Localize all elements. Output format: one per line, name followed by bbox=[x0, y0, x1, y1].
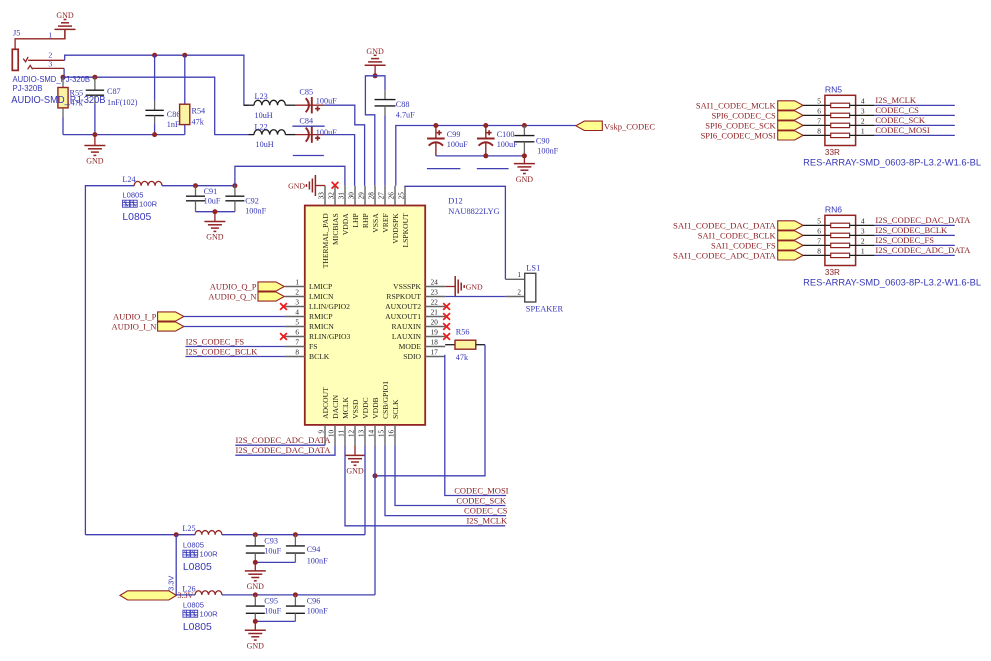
svg-text:GND: GND bbox=[346, 467, 364, 476]
svg-text:15: 15 bbox=[377, 429, 385, 437]
net label I2S_CODEC_FS / wire bbox=[875, 235, 955, 245]
no-connect X pin 32 bbox=[332, 182, 339, 189]
resistor element pins 8/1 bbox=[803, 246, 875, 257]
net label CODEC_CS / wire bbox=[875, 105, 955, 115]
svg-text:3.3V: 3.3V bbox=[167, 576, 176, 591]
junction C95 top bbox=[253, 592, 258, 597]
svg-text:RLIN/GPIO3: RLIN/GPIO3 bbox=[309, 332, 351, 341]
junction C96 top bbox=[293, 592, 298, 597]
port AUDIO_I_P bbox=[113, 311, 184, 321]
wire L24 to C92 bbox=[162, 185, 235, 187]
svg-text:30: 30 bbox=[347, 192, 355, 200]
capacitor C91 10uF bbox=[186, 186, 221, 212]
svg-text:19: 19 bbox=[431, 328, 439, 336]
svg-text:100nF: 100nF bbox=[245, 206, 266, 215]
capacitor C88 4.7uF bbox=[375, 90, 416, 119]
wire stub under C84 bbox=[292, 125, 324, 127]
svg-text:16: 16 bbox=[387, 429, 395, 437]
port AUDIO_I_N bbox=[112, 321, 184, 331]
svg-text:SPI6_CODEC_MOSI: SPI6_CODEC_MOSI bbox=[701, 131, 776, 141]
pin 10 DACIN bbox=[327, 394, 340, 445]
pin 13 VDDC bbox=[357, 397, 370, 445]
pin 22 AUXOUT2 bbox=[385, 298, 445, 311]
wire C84 to pin 30 LHP bbox=[324, 135, 354, 186]
power port GND below C93 bbox=[245, 562, 266, 591]
svg-text:8: 8 bbox=[817, 126, 821, 135]
svg-text:I2S_CODEC_ADC_DATA: I2S_CODEC_ADC_DATA bbox=[236, 435, 332, 445]
svg-text:L0805: L0805 bbox=[183, 562, 212, 573]
pin 6 RLIN/GPIO3 bbox=[285, 328, 351, 341]
wire pin 11 MCLK to I2S_MCLK bbox=[345, 445, 505, 525]
junction C86 top bbox=[152, 53, 157, 58]
power port GND below C91/C92 bbox=[204, 212, 225, 242]
svg-text:1: 1 bbox=[861, 246, 865, 255]
svg-text:100uF: 100uF bbox=[316, 128, 337, 137]
svg-text:GND: GND bbox=[206, 233, 224, 242]
junction C87 top bbox=[92, 75, 97, 80]
svg-text:AUXOUT1: AUXOUT1 bbox=[385, 312, 421, 321]
svg-text:C92: C92 bbox=[245, 196, 259, 205]
junction C92 top bbox=[232, 183, 237, 188]
wire VSSA jog to pin 28 bbox=[365, 76, 375, 186]
svg-text:J5: J5 bbox=[13, 29, 20, 38]
no-connect X pin 19 bbox=[443, 333, 450, 340]
wire C93/C94 bottom bbox=[255, 561, 295, 563]
svg-text:33R: 33R bbox=[825, 268, 840, 277]
wire stub under C100 bbox=[477, 168, 509, 170]
svg-text:FS: FS bbox=[309, 342, 317, 351]
pin 12 VSSD bbox=[347, 399, 360, 445]
svg-text:AUXOUT2: AUXOUT2 bbox=[385, 302, 421, 311]
svg-text:100R: 100R bbox=[200, 610, 219, 619]
svg-text:VDDB: VDDB bbox=[371, 397, 380, 419]
svg-text:SAI1_CODEC_FS: SAI1_CODEC_FS bbox=[711, 241, 776, 251]
svg-text:1nF(102): 1nF(102) bbox=[107, 98, 138, 107]
pin 14 VDDB bbox=[367, 397, 380, 445]
svg-text:10uH: 10uH bbox=[256, 140, 274, 149]
svg-text:LMICP: LMICP bbox=[309, 282, 332, 291]
svg-text:LMICN: LMICN bbox=[309, 292, 334, 301]
wire VDDSPK rail to Vskp_CODEC bbox=[396, 126, 576, 186]
svg-text:R56: R56 bbox=[456, 328, 470, 337]
pin 5 RMICN bbox=[285, 318, 335, 331]
junction C93 bottom bbox=[253, 560, 258, 565]
resistor element pins 6/3 bbox=[803, 226, 875, 237]
net label I2S_MCLK / wire bbox=[875, 95, 955, 105]
wire C95/C96 bottom bbox=[255, 620, 295, 622]
junction C100 top bbox=[483, 123, 488, 128]
capacitor C94 100nF bbox=[286, 535, 328, 566]
pin 17 SDIO bbox=[403, 348, 445, 361]
svg-text:Vskp_CODEC: Vskp_CODEC bbox=[604, 122, 655, 132]
svg-text:GND: GND bbox=[247, 641, 265, 650]
net label CODEC_MOSI / wire bbox=[875, 125, 955, 135]
svg-text:24: 24 bbox=[431, 278, 439, 286]
junction R55 top bbox=[61, 75, 66, 80]
svg-text:AUDIO-SMD_PJ-320B: AUDIO-SMD_PJ-320B bbox=[11, 95, 105, 106]
net label I2S_CODEC_BCLK / wire bbox=[875, 225, 955, 235]
svg-text:SAI1_CODEC_MCLK: SAI1_CODEC_MCLK bbox=[696, 101, 777, 111]
no-connect X pin 3 bbox=[280, 303, 287, 310]
resistor element pins 8/1 bbox=[803, 126, 875, 137]
svg-text:DACIN: DACIN bbox=[331, 394, 340, 419]
port SAI1_CODEC_BCLK bbox=[698, 231, 803, 241]
resistor R56 47k bbox=[445, 328, 485, 362]
svg-text:I2S_CODEC_BCLK: I2S_CODEC_BCLK bbox=[875, 225, 948, 235]
svg-text:100nF: 100nF bbox=[537, 147, 558, 156]
svg-text:C99: C99 bbox=[447, 130, 461, 139]
resistor element pins 6/3 bbox=[803, 106, 875, 117]
port SAI1_CODEC_DAC_DATA bbox=[673, 221, 803, 231]
svg-text:100nF: 100nF bbox=[307, 556, 328, 565]
port SAI1_CODEC_MCLK bbox=[696, 101, 803, 111]
svg-text:10uH: 10uH bbox=[255, 111, 273, 120]
wire pin 25 LSPKOUT to LS1 pin 1 bbox=[405, 186, 505, 279]
svg-text:C93: C93 bbox=[264, 537, 278, 546]
resistor R54 47k bbox=[180, 55, 206, 134]
pin 33 THERMAL_PAD bbox=[317, 186, 330, 268]
net label I2S_CODEC_FS / wire to pin 7 bbox=[185, 336, 285, 346]
svg-text:7: 7 bbox=[817, 116, 821, 125]
svg-text:VDDC: VDDC bbox=[361, 397, 370, 419]
pin 19 LAUXIN bbox=[392, 328, 445, 341]
inductor L23 10uH bbox=[244, 92, 296, 120]
svg-text:GND: GND bbox=[56, 11, 74, 20]
inductor L26 100R bead bbox=[182, 584, 222, 633]
svg-text:CODEC_CS: CODEC_CS bbox=[464, 505, 508, 515]
wire pin 15 CSB to CODEC_CS bbox=[385, 445, 506, 515]
capacitor C92 100nF bbox=[225, 186, 266, 216]
pin 1 LMICP bbox=[285, 278, 332, 291]
net label I2S_CODEC_DAC_DATA / wire bbox=[875, 215, 972, 225]
svg-text:23: 23 bbox=[431, 288, 439, 296]
svg-text:VSSD: VSSD bbox=[351, 399, 360, 419]
svg-text:7: 7 bbox=[817, 236, 821, 245]
power port GND pin 33 bbox=[288, 175, 325, 196]
port SAI1_CODEC_ADC_DATA bbox=[673, 251, 803, 261]
svg-text:VSSA: VSSA bbox=[371, 213, 380, 233]
wire AUDIO_I_N to pin 5 bbox=[184, 326, 285, 328]
op-amp U1 codec D12 NAU8822LYG body bbox=[305, 196, 500, 425]
pin 27 VREF bbox=[377, 186, 390, 233]
wire 3.3V stub vertical bbox=[175, 535, 177, 595]
net label CODEC_SCK / wire bbox=[875, 115, 955, 125]
svg-text:11: 11 bbox=[337, 429, 345, 436]
inductor L24 100R bead bbox=[122, 175, 162, 223]
wire stub under C99 bbox=[427, 168, 461, 170]
pin 25 LSPKOUT bbox=[397, 186, 410, 248]
svg-text:2: 2 bbox=[48, 50, 52, 59]
svg-text:L24: L24 bbox=[122, 175, 135, 184]
svg-text:THERMAL_PAD: THERMAL_PAD bbox=[321, 213, 330, 269]
power port GND pin 12 VSSD bbox=[345, 445, 366, 475]
resistor element pins 7/2 bbox=[803, 116, 875, 127]
svg-text:32: 32 bbox=[327, 192, 335, 200]
pin 4 RMICP bbox=[285, 308, 333, 321]
svg-text:18: 18 bbox=[431, 338, 439, 346]
svg-text:RES-ARRAY-SMD_0603-8P-L3.2-W1.: RES-ARRAY-SMD_0603-8P-L3.2-W1.6-BL bbox=[803, 278, 981, 288]
net label I2S_CODEC_BCLK / wire to pin 8 bbox=[185, 346, 285, 356]
wire L25 rail bbox=[85, 534, 195, 536]
svg-text:C85: C85 bbox=[299, 88, 313, 97]
power port GND below C90 bbox=[514, 156, 535, 184]
svg-text:LS1: LS1 bbox=[526, 264, 540, 273]
svg-text:C94: C94 bbox=[307, 545, 321, 554]
port SPI6_CODEC_MOSI bbox=[701, 131, 804, 141]
wire pin 14 VDDB down to 3.3V rail bbox=[374, 445, 376, 595]
inductor L25 100R bead bbox=[182, 524, 222, 573]
pin 23 RSPKOUT bbox=[386, 288, 445, 301]
wire GND rail below J5 bbox=[63, 134, 185, 136]
svg-text:SDIO: SDIO bbox=[403, 352, 421, 361]
net label I2S_CODEC_ADC_DATA / wire pin 9 bbox=[235, 435, 331, 445]
svg-text:47k: 47k bbox=[192, 118, 205, 127]
wire C88 to pin 27 VREF bbox=[384, 116, 386, 186]
svg-text:SPI6_CODEC_CS: SPI6_CODEC_CS bbox=[711, 111, 776, 121]
svg-text:BCLK: BCLK bbox=[309, 352, 330, 361]
svg-text:R54: R54 bbox=[192, 107, 206, 116]
pin 29 RHP bbox=[357, 186, 370, 228]
no-connect X pin 20 bbox=[443, 323, 450, 330]
svg-text:29: 29 bbox=[357, 192, 365, 200]
svg-text:SPI6_CODEC_SCK: SPI6_CODEC_SCK bbox=[705, 121, 776, 131]
svg-text:100R: 100R bbox=[139, 200, 158, 209]
svg-text:L23: L23 bbox=[255, 92, 268, 101]
svg-text:C87: C87 bbox=[107, 87, 121, 96]
no-connect X pin 22 bbox=[443, 303, 450, 310]
svg-text:GND: GND bbox=[247, 582, 265, 591]
capacitor C95 10uF bbox=[246, 595, 282, 622]
svg-text:I2S_CODEC_FS: I2S_CODEC_FS bbox=[875, 235, 934, 245]
junction R54 top bbox=[182, 53, 187, 58]
svg-text:6: 6 bbox=[295, 328, 299, 336]
svg-text:RMICN: RMICN bbox=[309, 322, 334, 331]
svg-text:100uF: 100uF bbox=[447, 140, 468, 149]
svg-text:4.7uF: 4.7uF bbox=[396, 110, 415, 119]
svg-text:RMICP: RMICP bbox=[309, 312, 333, 321]
svg-text:14: 14 bbox=[367, 429, 375, 437]
svg-text:CODEC_SCK: CODEC_SCK bbox=[456, 495, 506, 505]
svg-text:10uF: 10uF bbox=[264, 607, 281, 616]
svg-text:21: 21 bbox=[431, 308, 439, 316]
svg-text:33: 33 bbox=[317, 192, 325, 200]
power port GND below J5 bbox=[84, 135, 105, 166]
wire stub under L22 bbox=[293, 155, 324, 157]
wire AUDIO_I_P to pin 4 bbox=[184, 316, 285, 318]
port AUDIO_Q_N bbox=[208, 291, 284, 301]
capacitor C100 100uF polarized bbox=[477, 126, 518, 156]
wire 3.3V riser to L24 bbox=[85, 186, 134, 535]
svg-text:25: 25 bbox=[397, 192, 405, 200]
svg-text:C90: C90 bbox=[536, 137, 550, 146]
svg-text:ADCOUT: ADCOUT bbox=[321, 387, 330, 419]
pin 2 LMICN bbox=[285, 288, 334, 301]
svg-text:VSSSPK: VSSSPK bbox=[393, 282, 421, 291]
wire pin 16 SCLK to CODEC_SCK bbox=[395, 445, 506, 505]
svg-text:I2S_CODEC_ADC_DATA: I2S_CODEC_ADC_DATA bbox=[875, 245, 971, 255]
svg-text:AUDIO_Q_P: AUDIO_Q_P bbox=[210, 281, 257, 291]
svg-text:SCLK: SCLK bbox=[391, 399, 400, 419]
svg-text:C88: C88 bbox=[396, 100, 410, 109]
svg-text:CODEC_SCK: CODEC_SCK bbox=[875, 115, 925, 125]
no-connect X pin 21 bbox=[443, 313, 450, 320]
svg-text:9: 9 bbox=[317, 429, 325, 433]
svg-text:C95: C95 bbox=[264, 597, 278, 606]
port Vskp_CODEC bbox=[576, 121, 655, 132]
svg-text:5: 5 bbox=[817, 96, 821, 105]
junction C93 top bbox=[253, 532, 258, 537]
capacitor C87 1nF(102) bbox=[86, 77, 138, 134]
pin 21 AUXOUT1 bbox=[385, 308, 445, 321]
svg-text:I2S_MCLK: I2S_MCLK bbox=[875, 95, 916, 105]
svg-text:LLIN/GPIO2: LLIN/GPIO2 bbox=[309, 302, 350, 311]
svg-text:C91: C91 bbox=[204, 187, 218, 196]
svg-text:CODEC_MOSI: CODEC_MOSI bbox=[454, 485, 508, 495]
pin 16 SCLK bbox=[387, 399, 400, 445]
svg-text:D12: D12 bbox=[448, 196, 462, 205]
svg-text:LHP: LHP bbox=[351, 213, 360, 227]
svg-text:L0805: L0805 bbox=[183, 601, 204, 610]
svg-text:C96: C96 bbox=[307, 597, 321, 606]
svg-text:SAI1_CODEC_BCLK: SAI1_CODEC_BCLK bbox=[698, 231, 777, 241]
svg-text:6: 6 bbox=[817, 106, 821, 115]
svg-text:3: 3 bbox=[48, 59, 52, 68]
resistor array RN5 33R bbox=[825, 84, 856, 145]
svg-text:L0805: L0805 bbox=[122, 212, 151, 223]
power port GND pin 24 VSSSPK bbox=[445, 276, 483, 297]
svg-text:5: 5 bbox=[817, 216, 821, 225]
svg-text:3: 3 bbox=[295, 298, 299, 306]
capacitor C84 100uF polarized bbox=[296, 116, 337, 142]
wire C85 to pin 29 RHP bbox=[324, 105, 364, 186]
pin 7 FS bbox=[285, 338, 318, 351]
wire net ring rail bbox=[63, 77, 249, 134]
svg-text:I2S_CODEC_DAC_DATA: I2S_CODEC_DAC_DATA bbox=[236, 445, 332, 455]
wire L26 rail bbox=[176, 594, 195, 596]
junction C91 top bbox=[193, 183, 198, 188]
svg-text:AUDIO-SMD_PJ-320B: AUDIO-SMD_PJ-320B bbox=[13, 75, 91, 84]
svg-text:GND: GND bbox=[86, 157, 104, 166]
junction 3.3V stub bbox=[174, 532, 179, 537]
junction VDDB/R56 bbox=[373, 473, 378, 478]
pin 28 VSSA bbox=[367, 186, 380, 233]
junction C86 bottom bbox=[152, 132, 157, 137]
svg-text:GND: GND bbox=[516, 175, 534, 184]
svg-text:SAI1_CODEC_DAC_DATA: SAI1_CODEC_DAC_DATA bbox=[673, 221, 777, 231]
svg-text:C100: C100 bbox=[497, 130, 515, 139]
junction C90 bottom bbox=[522, 153, 527, 158]
resistor R55 47k bbox=[58, 77, 84, 117]
svg-text:CSB/GPIO1: CSB/GPIO1 bbox=[381, 381, 390, 419]
svg-text:27: 27 bbox=[377, 192, 385, 200]
svg-text:I2S_CODEC_BCLK: I2S_CODEC_BCLK bbox=[186, 346, 259, 356]
pin 11 MCLK bbox=[337, 396, 350, 445]
svg-text:RN5: RN5 bbox=[825, 84, 842, 94]
pin 3 LLIN/GPIO2 bbox=[285, 298, 350, 311]
svg-text:31: 31 bbox=[337, 192, 345, 200]
svg-text:20: 20 bbox=[431, 318, 439, 326]
svg-text:1: 1 bbox=[295, 278, 299, 286]
svg-text:VREF: VREF bbox=[381, 213, 390, 232]
resistor element pins 5/4 bbox=[803, 216, 875, 227]
svg-text:13: 13 bbox=[357, 429, 365, 437]
svg-text:100nF: 100nF bbox=[307, 607, 328, 616]
svg-text:4: 4 bbox=[861, 96, 865, 105]
svg-text:GND: GND bbox=[466, 282, 483, 291]
svg-text:L0805: L0805 bbox=[122, 191, 143, 200]
svg-text:1: 1 bbox=[517, 271, 521, 279]
svg-text:SAI1_CODEC_ADC_DATA: SAI1_CODEC_ADC_DATA bbox=[673, 251, 777, 261]
pin 24 VSSSPK bbox=[393, 278, 445, 291]
port SAI1_CODEC_FS bbox=[711, 241, 803, 251]
svg-text:L26: L26 bbox=[182, 584, 195, 593]
svg-text:PJ-320B: PJ-320B bbox=[13, 84, 43, 93]
capacitor C96 100nF bbox=[286, 595, 328, 622]
port SPI6_CODEC_SCK bbox=[705, 121, 803, 131]
junction C94 top bbox=[293, 532, 298, 537]
junction GND/C88/VSSA bbox=[373, 73, 378, 78]
svg-text:RSPKOUT: RSPKOUT bbox=[386, 292, 421, 301]
power port GND above C88 bbox=[365, 47, 386, 76]
svg-text:NAU8822LYG: NAU8822LYG bbox=[448, 207, 499, 216]
svg-text:GND: GND bbox=[288, 181, 305, 190]
wire net tip (J5.2) to L23 bbox=[65, 55, 249, 105]
svg-text:L0805: L0805 bbox=[183, 541, 204, 550]
svg-text:3: 3 bbox=[861, 106, 865, 115]
svg-text:7: 7 bbox=[295, 338, 299, 346]
svg-text:I2S_CODEC_DAC_DATA: I2S_CODEC_DAC_DATA bbox=[875, 215, 971, 225]
wire C99/C100/C90 bottom rail bbox=[436, 155, 525, 157]
svg-text:47k: 47k bbox=[456, 353, 469, 362]
power port GND (J5 pin 1) bbox=[55, 11, 76, 39]
svg-text:2: 2 bbox=[861, 236, 865, 245]
svg-text:CODEC_CS: CODEC_CS bbox=[875, 105, 919, 115]
pin 15 CSB/GPIO1 bbox=[377, 381, 390, 446]
svg-text:100uF: 100uF bbox=[316, 97, 337, 106]
wire C91/C92 bottom rail bbox=[196, 211, 235, 213]
wire pin 17 SDIO to CODEC_MOSI bbox=[445, 355, 506, 496]
svg-text:4: 4 bbox=[861, 216, 865, 225]
svg-text:AUDIO_Q_N: AUDIO_Q_N bbox=[208, 291, 256, 301]
svg-text:C86: C86 bbox=[167, 110, 181, 119]
svg-text:AUDIO_I_P: AUDIO_I_P bbox=[113, 311, 157, 321]
svg-text:L22: L22 bbox=[255, 123, 268, 132]
svg-text:8: 8 bbox=[295, 348, 299, 356]
wire junction to C88 bbox=[375, 76, 385, 90]
svg-text:SPEAKER: SPEAKER bbox=[526, 305, 564, 314]
port SPI6_CODEC_CS bbox=[711, 111, 803, 121]
svg-text:AUDIO_I_N: AUDIO_I_N bbox=[112, 321, 157, 331]
svg-text:100R: 100R bbox=[200, 550, 219, 559]
wire C92 up-over to pin 31 VDDA bbox=[235, 166, 345, 186]
pin 26 VDDSPK bbox=[387, 186, 400, 244]
svg-text:MICBIAS: MICBIAS bbox=[331, 213, 340, 245]
svg-text:MCLK: MCLK bbox=[341, 396, 350, 418]
pin 20 RAUXIN bbox=[391, 318, 445, 331]
wire R55 bottom to GND rail bbox=[62, 118, 64, 135]
capacitor C99 100uF polarized bbox=[427, 126, 468, 156]
inductor L22 10uH bbox=[249, 123, 296, 150]
svg-text:L0805: L0805 bbox=[183, 622, 212, 633]
svg-text:C84: C84 bbox=[299, 116, 313, 125]
svg-text:3: 3 bbox=[861, 226, 865, 235]
net label I2S_CODEC_ADC_DATA / wire bbox=[875, 245, 972, 255]
connector J5 audio jack PJ-320B bbox=[12, 29, 65, 71]
svg-text:22: 22 bbox=[431, 298, 439, 306]
svg-text:RHP: RHP bbox=[361, 213, 370, 228]
svg-text:2: 2 bbox=[861, 116, 865, 125]
svg-text:17: 17 bbox=[431, 348, 439, 356]
